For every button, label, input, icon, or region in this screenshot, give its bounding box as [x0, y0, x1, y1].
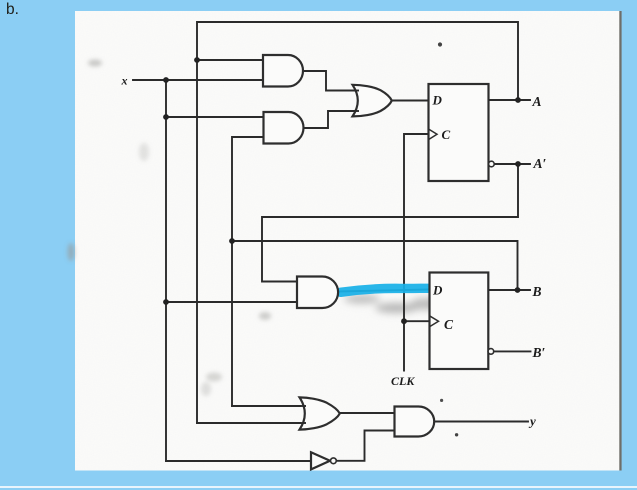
node: x to AND-B: [163, 299, 169, 305]
wire: inverter output to AND3 bottom input: [337, 431, 395, 461]
node: CLK to FF-B: [401, 318, 407, 324]
wire: A feedback to OR2 bottom input: [197, 422, 300, 424]
inverter bubble: [331, 458, 337, 464]
svg-text:CLK: CLK: [391, 374, 415, 388]
wire stub OR1 bottom input: [352, 110, 359, 112]
wire: OR2 output to AND3 top input: [339, 412, 395, 414]
D flip-flop B body: [430, 273, 489, 370]
and gate AND-B: [297, 277, 338, 309]
graphite smear under highlighted wire: [344, 293, 445, 313]
wire: A' feedback down-left to AND-B top input: [262, 164, 518, 282]
node: B output: [515, 287, 521, 293]
and gate AND3: [395, 407, 435, 437]
node: x to AND1: [163, 77, 169, 83]
wire: AND-B output under highlight: [337, 290, 430, 292]
svg-text:A′: A′: [533, 156, 547, 171]
svg-text:x: x: [121, 74, 128, 88]
FF-B clock triangle: [430, 316, 439, 327]
node: x to AND2: [163, 114, 169, 120]
node: A' output: [515, 161, 521, 167]
item label b.: [6, 1, 19, 19]
wire: CLK branch to FF-B C input: [404, 320, 430, 322]
wire: x branch to AND-B bottom input: [166, 301, 297, 303]
wire: A' output: [494, 163, 530, 165]
wire: CLK vertical and FF-A C input: [404, 134, 429, 371]
svg-text:B: B: [532, 284, 542, 299]
node: A line to AND1: [194, 57, 200, 63]
node: A output: [515, 97, 521, 103]
wire: AND1 output to OR1 top input: [302, 71, 357, 91]
node: B feedback junction: [229, 238, 235, 244]
wire: x branch to AND2 top input: [166, 116, 263, 118]
wire: x vertical bus: [165, 80, 167, 461]
wire: OR1 output to FF-A D input: [391, 100, 429, 102]
wire stub OR2 top input: [298, 405, 306, 407]
bottom divider line: [0, 486, 637, 488]
inverter triangle: [311, 452, 330, 469]
wire: B output: [488, 289, 530, 291]
wire: AND2 output to OR1 bottom input: [303, 111, 357, 128]
wire stub OR2 bottom input: [298, 422, 306, 424]
svg-text:D: D: [432, 93, 443, 108]
svg-text:D: D: [432, 283, 443, 298]
D flip-flop A body: [429, 84, 489, 181]
highlighted wire (cyan marker): [341, 288, 430, 292]
wire: B' output: [494, 350, 531, 352]
svg-text:A: A: [532, 94, 542, 109]
svg-text:y: y: [528, 414, 536, 429]
FF-B Q' bubble: [488, 349, 494, 355]
wire: B feedback up-left: [232, 241, 518, 290]
and gate AND1: [263, 55, 303, 87]
paper right shadow edge: [619, 11, 621, 471]
wire: B feedback to OR2 top input: [232, 405, 300, 407]
wire: y output: [433, 421, 528, 423]
wire: AND1 top input from A line: [197, 59, 263, 61]
faint scan smudges: [68, 60, 272, 397]
wire: x line to inverter input: [166, 460, 311, 462]
svg-text:C: C: [442, 127, 451, 142]
or gate OR1: [353, 85, 392, 117]
FF-A Q' bubble: [489, 161, 495, 167]
or gate OR2: [300, 397, 340, 429]
svg-text:B′: B′: [532, 345, 546, 360]
and gate AND2: [264, 112, 304, 144]
wire: B feedback vertical bus: [232, 137, 263, 406]
FF-A clock triangle: [429, 129, 438, 140]
svg-text:C: C: [444, 317, 454, 332]
scan speck dots: [438, 42, 442, 46]
wire: A output: [489, 99, 531, 101]
wire stub OR1 top input: [352, 90, 359, 92]
wire: x input line: [133, 79, 263, 81]
wire: top feedback A run: [197, 22, 518, 423]
